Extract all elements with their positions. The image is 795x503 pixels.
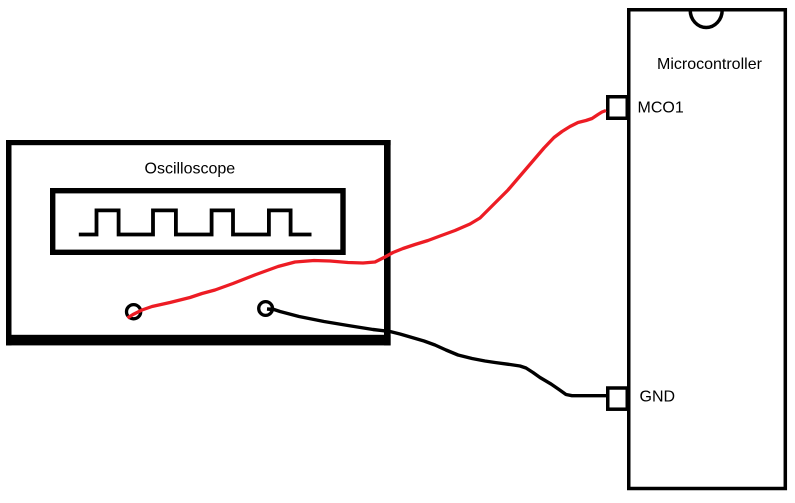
- oscilloscope box: bottom border: [6, 335, 391, 346]
- probe jack CH1 (left circle): [127, 305, 141, 319]
- microcontroller box U1: [629, 10, 786, 489]
- oscilloscope box: left border: [6, 140, 12, 345]
- pin GND: [608, 388, 628, 409]
- square wave trace on screen: [79, 210, 312, 234]
- svg-text:MCO1: MCO1: [638, 100, 684, 117]
- notch (pin-1 orientation semicircle): [690, 10, 722, 28]
- black wire: CH2 jack to GND pin: [267, 309, 606, 396]
- svg-text:GND: GND: [640, 389, 676, 406]
- probe jack CH2 (right circle): [259, 302, 273, 316]
- svg-text:Microcontroller: Microcontroller: [657, 56, 763, 73]
- red wire: CH1 jack to MCO1 pin: [128, 111, 607, 319]
- oscilloscope box: right border: [384, 140, 391, 345]
- oscilloscope screen bezel: [53, 191, 343, 253]
- pin MCO1: [608, 97, 628, 119]
- oscilloscope box: top border: [6, 140, 391, 145]
- svg-text:Oscilloscope: Oscilloscope: [145, 161, 236, 178]
